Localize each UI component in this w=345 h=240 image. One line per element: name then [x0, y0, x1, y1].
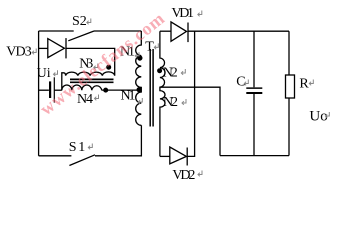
source Ui negative plate — [49, 81, 51, 98]
wire top-left rail — [39, 30, 74, 32]
wire VD3 anode — [39, 47, 48, 49]
pilcrow after Uo — [325, 112, 329, 118]
pilcrow after VD3 — [32, 49, 36, 55]
capacitor C bottom plate — [246, 92, 262, 94]
pilcrow after Ui — [54, 70, 58, 76]
svg-text:C: C — [236, 75, 245, 90]
wire Ui to N3/N4 — [54, 89, 62, 91]
inductor N3 — [62, 72, 115, 90]
svg-text:VD3: VD3 — [6, 45, 32, 60]
svg-text:N1: N1 — [121, 89, 136, 104]
svg-text:N2: N2 — [163, 95, 178, 110]
node dot N4 — [103, 88, 108, 93]
node dot N3 phase — [106, 65, 111, 70]
svg-text:S1: S1 — [69, 140, 86, 155]
switch S2 arm — [68, 31, 94, 41]
pilcrow after R — [309, 80, 313, 86]
pilcrow after S1 — [88, 144, 92, 150]
pilcrow after N4 — [95, 95, 99, 101]
inductor N4 — [62, 85, 102, 90]
pilcrow after N2 top — [181, 69, 185, 75]
wire VD1 cathode to output top rail — [188, 30, 289, 32]
core bars of N3/N4 — [70, 78, 114, 80]
wire N2 bottom to VD2 anode — [160, 155, 170, 157]
wire VD3 cathode to N3 — [66, 48, 115, 75]
wire S1 to transformer primary bottom — [95, 125, 141, 156]
svg-text:S2: S2 — [72, 14, 87, 29]
svg-text:T: T — [145, 40, 154, 55]
transformer T primary N1 winding — [136, 31, 142, 125]
svg-text:N2: N2 — [163, 65, 178, 80]
pilcrow after N3 — [94, 64, 98, 70]
diode VD2 — [170, 147, 187, 164]
svg-text:www.elecfans.com: www.elecfans.com — [36, 8, 169, 119]
resistor R — [286, 75, 295, 98]
wire VD2 cathode up to output top rail — [187, 31, 194, 156]
pilcrow after N1 top — [135, 52, 139, 57]
node dot N1 top phase — [137, 55, 142, 60]
wire R bottom — [288, 98, 290, 156]
pilcrow after VD1 — [198, 11, 202, 17]
pilcrow after VD2 — [198, 171, 202, 177]
svg-text:Uo: Uo — [309, 108, 327, 124]
pilcrow after S2 — [87, 19, 91, 25]
wire R branch top — [288, 31, 290, 75]
pilcrow after N1 bottom — [138, 98, 142, 104]
wire N4 to transformer tap — [102, 89, 142, 91]
wire bottom-left rail — [39, 155, 72, 157]
wire VD1 anode — [160, 30, 171, 32]
capacitor C top plate — [246, 87, 262, 89]
svg-text:VD2: VD2 — [172, 168, 195, 183]
diode VD3 — [48, 39, 65, 58]
wire output bottom rail — [220, 155, 289, 157]
svg-text:Ui: Ui — [37, 66, 51, 81]
wire Ui left — [39, 89, 49, 91]
pilcrow after C — [244, 80, 248, 86]
wire left border — [38, 31, 40, 156]
node dot N2 top phase — [157, 68, 162, 73]
wire S2 to transformer primary top — [94, 30, 141, 32]
node dot N1 tap junction — [137, 87, 142, 92]
transformer T secondary N2 winding — [160, 31, 165, 156]
pilcrow after N2 bottom — [182, 99, 186, 105]
source Ui positive plate — [53, 77, 55, 102]
wire center tap of N2 — [160, 87, 220, 155]
transformer core — [149, 49, 151, 127]
wire C branch top — [253, 31, 255, 87]
svg-text:VD1: VD1 — [172, 6, 195, 21]
switch S1 arm — [69, 155, 95, 166]
diode VD1 — [171, 22, 187, 41]
wire C bottom — [253, 93, 255, 156]
svg-text:R: R — [299, 77, 309, 92]
pilcrow after T — [154, 43, 158, 49]
